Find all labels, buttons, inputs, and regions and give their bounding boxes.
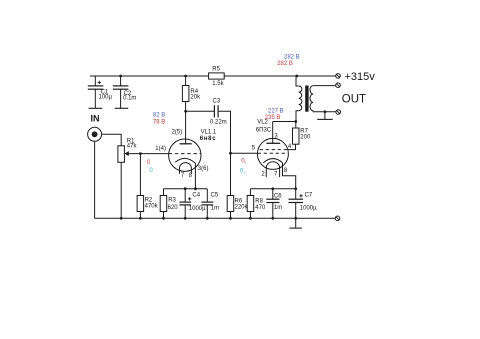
resistor R4 [182, 76, 189, 111]
svg-text:220k: 220k [235, 205, 249, 211]
svg-text:470k: 470k [145, 204, 159, 210]
label C3 value [210, 98, 227, 125]
wire: jack to R1 top [102, 134, 122, 146]
svg-text:1000µ: 1000µ [300, 205, 317, 211]
capacitor C1 [88, 81, 104, 109]
pin label VL2 5 [252, 145, 256, 151]
capacitor C6 [266, 189, 279, 219]
tube VL2 anode [266, 142, 280, 144]
capacitor C2 [113, 86, 129, 108]
ground (C1) [89, 107, 103, 109]
node: R6 on ground rail [229, 217, 232, 220]
tube VL2 cathode [263, 159, 282, 163]
svg-text:C6: C6 [274, 193, 282, 199]
annotation 0 red (VL1 grid) [147, 160, 151, 166]
svg-text:VL1.1: VL1.1 [201, 130, 217, 136]
wire: R1 wiper to VL1 grid [129, 153, 169, 155]
capacitor C4 [179, 189, 191, 219]
annotation 78 V red [153, 119, 165, 125]
transformer T1 primary [296, 76, 302, 122]
pin labels VL2 2 7 8 [261, 168, 288, 177]
node: plate/R7/primary junction [294, 120, 297, 123]
svg-text:1000µ: 1000µ [189, 206, 206, 212]
pin label VL1 3(6) [198, 166, 209, 172]
node: transformer primary junction on rail [295, 75, 298, 78]
wire: +B top rail [90, 75, 336, 77]
node: C4 on ground rail [184, 217, 187, 220]
label R5 value [212, 66, 224, 87]
svg-text:C7: C7 [305, 192, 313, 198]
wire: C2 top lead [120, 76, 122, 86]
resistor R3 [160, 196, 167, 219]
svg-text:47k: 47k [127, 144, 138, 150]
annotation 82 V blue [153, 112, 165, 118]
node: cathode tap [194, 187, 197, 190]
label R3 value [168, 198, 179, 212]
node: C2 junction on rail [119, 75, 122, 78]
resistor R7 [293, 122, 300, 145]
pin label VL1 2(5) [172, 130, 183, 136]
resistor R8 [247, 196, 254, 219]
svg-text:235 В: 235 В [265, 115, 281, 121]
node: secondary ground junction [324, 110, 327, 113]
tube VL1.1 heater [180, 163, 192, 174]
wire: VL1 plate lead [185, 111, 187, 144]
node: R2 on ground rail [139, 217, 142, 220]
terminal OUT top [336, 83, 341, 88]
tube VL1.1 anode [180, 143, 192, 145]
wire: ground rail [95, 217, 336, 219]
annotation 282 V red [277, 61, 293, 67]
capacitor C7 [289, 189, 304, 228]
node: plate/R4/C3 junction [184, 110, 187, 113]
label R8 value [255, 198, 266, 211]
tube VL2 control grid (dashed) [258, 152, 289, 154]
label C4 value [189, 192, 206, 211]
svg-text:6П3С: 6П3С [256, 127, 272, 133]
svg-text:82 В: 82 В [153, 112, 165, 118]
ground (C7) [289, 227, 302, 229]
svg-text:620: 620 [168, 205, 179, 211]
label IN [91, 113, 100, 123]
label R2 value [145, 198, 159, 210]
wire: VL2 cathode lead [283, 163, 296, 189]
svg-text:1m: 1m [274, 205, 282, 211]
svg-text:8: 8 [189, 173, 193, 179]
annotation 235 V red [265, 115, 281, 121]
label C1 value [99, 89, 113, 100]
node: R2 tap on grid wire [139, 152, 142, 155]
label C6 value [274, 193, 282, 211]
wire: jack ground drop [94, 141, 96, 218]
wire: R8 top lead [249, 189, 251, 196]
annotation 282 V blue [284, 55, 300, 61]
wire: VL2 plate lead [272, 122, 274, 144]
wire: R7 to screen grid [287, 144, 295, 149]
svg-text:6н8с: 6н8с [200, 136, 216, 142]
tube VL2 screen grid (dashed) [260, 149, 288, 151]
svg-text:3(6): 3(6) [198, 166, 209, 172]
wire: R3 top lead [163, 189, 165, 196]
label VL1.1 designator [200, 130, 217, 142]
pin label VL2 4 [288, 144, 292, 150]
tube VL1.1 cathode [175, 158, 195, 163]
svg-text:1.5k: 1.5k [212, 81, 224, 87]
svg-text:+315v: +315v [345, 71, 376, 83]
node: C4 tap [184, 187, 187, 190]
resistor R6 [227, 196, 234, 219]
transformer T1 secondary [310, 86, 336, 112]
resistor R1 (potentiometer) [118, 146, 129, 219]
label R1 value [127, 139, 138, 150]
node: R3 on ground rail [162, 217, 165, 220]
node: R4 junction on rail [184, 75, 187, 78]
pin label VL2 3 [274, 133, 278, 139]
label R4 value [190, 89, 201, 101]
wire: VL1 cathode lead [194, 163, 196, 189]
wire: C3 to VL2 grid [218, 111, 258, 153]
label R7 value [300, 129, 311, 141]
svg-text:282 В: 282 В [284, 55, 300, 61]
label C7 value [300, 192, 317, 211]
svg-text:20k: 20k [190, 94, 201, 100]
node: C6 on ground rail [271, 217, 274, 220]
tube VL2 envelope [257, 138, 288, 169]
svg-text:R2: R2 [145, 198, 153, 204]
svg-text:8: 8 [284, 168, 288, 174]
annotation 227 V blue [268, 109, 284, 115]
terminal ground rail [335, 216, 340, 221]
wire: VL2 cathode network bus [250, 188, 295, 190]
node: R8 on ground rail [249, 217, 252, 220]
label R6 value [235, 198, 249, 210]
pin label VL1 1(4) [155, 146, 166, 152]
ground (C2) [115, 107, 129, 109]
connector IN jack [88, 127, 102, 141]
label VL2 designator [256, 120, 272, 134]
tube VL2 heater [266, 162, 279, 177]
node: C7 on ground rail [294, 217, 297, 220]
svg-text:200: 200 [300, 134, 311, 140]
svg-text:2: 2 [261, 171, 265, 177]
label OUT [342, 94, 366, 106]
node: VL2 grid junction [229, 152, 232, 155]
annotation 0 red (VL2 grid) [241, 158, 246, 164]
wire: R2 top lead [139, 154, 141, 196]
svg-text:C4: C4 [192, 192, 200, 198]
svg-text:78 В: 78 В [153, 119, 165, 125]
svg-text:0.22m: 0.22m [210, 119, 227, 125]
transformer T1 core [305, 86, 308, 112]
tube VL1.1 envelope [169, 139, 201, 171]
node: C7 tap [294, 187, 297, 190]
pin labels VL1 7 8 [181, 173, 193, 179]
svg-text:2(5): 2(5) [172, 130, 183, 136]
svg-text:0.1m: 0.1m [123, 95, 136, 101]
capacitor C5 [201, 189, 213, 219]
wire: VL2 plate wire [273, 121, 296, 123]
tube VL1.1 grid (dashed) [169, 153, 201, 155]
svg-text:227 В: 227 В [268, 109, 284, 115]
annotation 0 cyan (VL2 grid) [240, 168, 245, 174]
wire: junction to C3 [186, 110, 215, 112]
node: C5 on ground rail [206, 217, 209, 220]
node: R1 on ground rail [120, 217, 123, 220]
terminal +315v [336, 74, 341, 79]
svg-text:R3: R3 [168, 198, 176, 204]
svg-text:R8: R8 [255, 198, 263, 204]
svg-text:3: 3 [274, 133, 278, 139]
svg-text:0: 0 [147, 160, 151, 166]
svg-text:7: 7 [181, 173, 185, 179]
svg-text:7: 7 [274, 171, 278, 177]
svg-text:IN: IN [91, 113, 100, 123]
svg-text:C3: C3 [213, 98, 221, 104]
capacitor C3 [214, 105, 218, 117]
resistor R5 [209, 73, 225, 79]
svg-text:5: 5 [252, 145, 256, 151]
label C2 value [123, 91, 136, 101]
label +315v [345, 71, 376, 83]
svg-text:R6: R6 [235, 198, 243, 204]
svg-text:R5: R5 [212, 66, 220, 72]
svg-text:OUT: OUT [342, 94, 366, 106]
resistor R2 [137, 196, 144, 219]
svg-text:0: 0 [149, 168, 153, 174]
svg-text:1(4): 1(4) [155, 146, 166, 152]
svg-text:C5: C5 [211, 192, 219, 198]
terminal OUT bottom [336, 110, 341, 115]
svg-text:282 В: 282 В [277, 61, 293, 67]
ground (secondary) [317, 112, 333, 120]
wire: R6 top lead [230, 153, 232, 195]
wire: C1 top lead [94, 76, 96, 86]
svg-text:0,: 0, [241, 158, 246, 164]
label C5 value [211, 192, 220, 211]
svg-text:0,: 0, [240, 168, 245, 174]
wire: VL1 cathode network bus [164, 188, 208, 190]
svg-text:1m: 1m [211, 205, 219, 211]
node: C6 tap [271, 187, 274, 190]
svg-text:470: 470 [255, 205, 266, 211]
annotation 0 cyan (VL1 grid) [149, 168, 153, 174]
svg-text:100µ: 100µ [99, 94, 113, 100]
